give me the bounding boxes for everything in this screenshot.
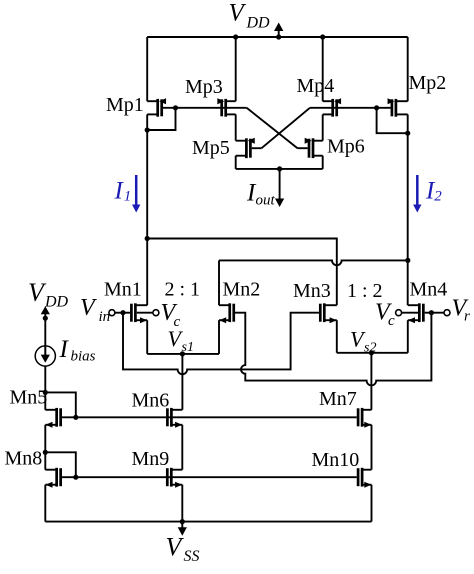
svg-text:Mn3: Mn3 [293, 280, 331, 302]
node dot Mn4 gate junction [429, 310, 434, 315]
wire Mn9 source down [181, 485, 183, 522]
transistor Mn9 [167, 468, 182, 488]
label Mn10 [312, 449, 360, 471]
wire cross line I2 to Mn2 with hop [219, 260, 408, 265]
wire Mn2 drain up [218, 260, 220, 305]
transistor Mp2 [388, 98, 408, 117]
wire Mp6 drain down [322, 156, 324, 169]
wire Mp2 source from rail [407, 37, 409, 101]
wire Mn4 gate to Vr [425, 312, 444, 314]
node dot Vs1 [180, 351, 185, 356]
label VDD left [28, 278, 69, 311]
label Mp2 [409, 72, 447, 94]
svg-text:Mn1: Mn1 [104, 278, 142, 300]
wire Vs2 to Mn7 drain [370, 353, 372, 410]
label Mn6 [132, 390, 170, 412]
current I1 arrow [132, 175, 140, 213]
wire Mp4 source from rail [322, 37, 324, 101]
wire Mp2 gate-drain diode [377, 108, 408, 133]
wire Ibias to Mn5 [44, 366, 46, 392]
svg-text:Mn7: Mn7 [319, 388, 357, 410]
svg-text:DD: DD [246, 15, 271, 32]
wire Mn2 gate to Mn4 gate with hops [235, 313, 431, 386]
transistor Mn10 [358, 468, 371, 488]
svg-text:in: in [99, 309, 111, 325]
svg-text:c: c [388, 313, 395, 329]
label I2 [425, 178, 442, 205]
wire Mn3 source down [336, 320, 338, 353]
terminal Vin [109, 310, 115, 316]
svg-text:Mn6: Mn6 [132, 390, 170, 412]
svg-text:Mn2: Mn2 [223, 278, 261, 300]
svg-text:Mn10: Mn10 [312, 449, 360, 471]
terminal Vc right [396, 310, 402, 316]
node dot Vs2 [369, 350, 374, 355]
current source Ibias [35, 346, 55, 366]
wire Mp6 gate lead [298, 147, 308, 149]
wire gate line left [163, 107, 247, 109]
wire Mn4 source down [407, 320, 409, 353]
svg-text:2: 2 [434, 189, 442, 205]
wire cross diagonal 2 [262, 108, 310, 148]
label Mp1 [106, 94, 144, 116]
label VDD top [229, 0, 271, 32]
terminal Vc left [153, 310, 159, 316]
label Mn2 [223, 278, 261, 300]
label Mn3 [293, 280, 331, 302]
wire Mp2 drain down [407, 114, 409, 133]
terminal Vr [444, 310, 450, 316]
transistor Mp1 [147, 98, 166, 117]
wire Vin net to Mn3 gate with hop [123, 313, 319, 374]
label Mp3 [185, 76, 223, 98]
node dot I2 branch [405, 258, 410, 263]
wire Mp3 source from rail [235, 37, 237, 101]
wire Vs1 rail [147, 353, 219, 355]
wire Mp5 gate lead [252, 147, 262, 149]
node dot Mp1 gate junction [173, 105, 178, 110]
current I2 arrow [413, 175, 421, 213]
svg-text:Mp5: Mp5 [192, 137, 230, 159]
svg-text:Mp1: Mp1 [106, 94, 144, 116]
label Vc left [161, 300, 181, 330]
svg-text:SS: SS [184, 548, 200, 565]
label Ibias [59, 336, 96, 365]
svg-text:V: V [80, 295, 97, 321]
node dot Mp3 source rail [233, 34, 238, 39]
node dot Mp2 drain [405, 131, 410, 136]
svg-text:Mp3: Mp3 [185, 76, 223, 98]
transistor Mn6 [167, 408, 182, 428]
power VDD arrow [274, 23, 283, 40]
label Mp4 [297, 75, 335, 97]
label Mn4 [410, 279, 448, 301]
node dot Mn5 drain junction [43, 390, 48, 395]
wire Iout rail [236, 168, 323, 170]
label Vs1 [168, 326, 194, 355]
transistor Mn2 [219, 303, 234, 323]
wire Vs1 to Mn6 drain [181, 354, 183, 410]
label Vr [452, 296, 471, 325]
wire gate line right [310, 107, 391, 109]
wire Mn10 source down [371, 485, 373, 522]
wire Vs2 rail [337, 352, 408, 354]
label VSS [166, 533, 200, 566]
label Mn7 [319, 388, 357, 410]
transistor Mp3 [217, 98, 235, 117]
wire VDD top rail [147, 36, 408, 38]
svg-text:Mn9: Mn9 [132, 448, 170, 470]
node dot VDD left [43, 316, 48, 321]
wire Mp5 drain down [235, 156, 237, 169]
svg-text:s2: s2 [364, 341, 376, 356]
transistor Mn8 [45, 468, 60, 488]
wire Mp1 drain to Mn1 drain [146, 130, 148, 305]
svg-text:s1: s1 [182, 340, 194, 355]
wire Mp1 drain down [146, 114, 148, 130]
svg-text:Mp4: Mp4 [297, 75, 335, 97]
wire Mn1 bulk to Vc [137, 312, 153, 314]
node dot Iout [277, 166, 282, 171]
wire Mn6 source down [181, 425, 183, 470]
wire Mp1 source from rail [146, 37, 148, 101]
wire Mp4 drain to Mp6 source [322, 114, 324, 140]
wire Mp1 gate-drain diode [147, 108, 175, 130]
wire Mp3 drain to Mp5 source [235, 114, 237, 140]
node dot Mp2 gate junction [374, 105, 379, 110]
label Mn1 [104, 278, 142, 300]
label Vc right [375, 300, 395, 330]
svg-text:Mn8: Mn8 [5, 448, 43, 470]
svg-text:bias: bias [71, 349, 96, 365]
label Mn8 [5, 448, 43, 470]
transistor Mp4 [323, 98, 341, 117]
svg-text:2 : 1: 2 : 1 [165, 278, 201, 300]
wire Ibias to Mn5 drain [44, 392, 46, 409]
label Iout [246, 180, 276, 209]
power VDD left arrow [41, 306, 50, 346]
svg-text:Mp6: Mp6 [327, 136, 365, 158]
svg-text:Mn5: Mn5 [10, 387, 48, 409]
label Vs2 [350, 327, 376, 356]
node dot Mn8 gate junction [73, 475, 78, 480]
label Mn5 [10, 387, 48, 409]
wire gate rail 2 [62, 476, 357, 478]
transistor Mn7 [358, 408, 371, 428]
wire Mn5 source down [44, 425, 46, 453]
wire Mp2 drain to Mn4 drain [407, 133, 409, 305]
label Mn9 [132, 448, 170, 470]
wire gate rail 1 [62, 416, 357, 418]
svg-text:1: 1 [124, 189, 132, 205]
svg-text:Mn4: Mn4 [410, 279, 448, 301]
terminal VSS arrow [178, 522, 187, 536]
svg-text:Mp2: Mp2 [409, 72, 447, 94]
node dot Mn5 gate junction [73, 415, 78, 420]
svg-text:r: r [464, 309, 470, 325]
wire Mn8 diode loop [45, 452, 76, 477]
node dot Mp4 source rail [320, 34, 325, 39]
transistor Mn4 [408, 303, 424, 323]
transistor Mn5 [45, 408, 60, 428]
wire Mn2 source down [218, 320, 220, 354]
transistor Mp5 [236, 138, 255, 158]
wire Mn8 drain lead [44, 452, 46, 469]
svg-text:DD: DD [44, 294, 69, 311]
wire Mn8 source down [44, 485, 46, 522]
wire cross line I1 to Mn3 [147, 239, 337, 306]
label Vin [80, 295, 110, 325]
node dot Mp1 drain [145, 127, 150, 132]
node dot VSS [180, 519, 185, 524]
label I1 [114, 178, 132, 205]
label Mp6 [327, 136, 365, 158]
wire Vin to Mn1 gate [115, 312, 130, 314]
label Mp5 [192, 137, 230, 159]
label ratio 2:1 [165, 278, 201, 300]
node dot I1 branch [145, 236, 150, 241]
transistor Mp6 [305, 138, 323, 158]
terminal Iout arrow [275, 169, 284, 207]
wire Mn5 diode loop [45, 392, 76, 417]
node dot Vin junction [120, 310, 125, 315]
wire Mn1 source down [146, 320, 148, 354]
label ratio 1:2 [347, 280, 383, 302]
wire Mn4 bulk to Vc [402, 312, 418, 314]
transistor Mn1 [131, 303, 147, 323]
svg-text:out: out [256, 193, 276, 209]
wire VSS rail [45, 521, 371, 523]
wire cross diagonal 1 [247, 108, 298, 148]
wire Mn7 source down [371, 425, 373, 470]
node dot Mn8 drain junction [43, 450, 48, 455]
transistor Mn3 [320, 303, 337, 323]
